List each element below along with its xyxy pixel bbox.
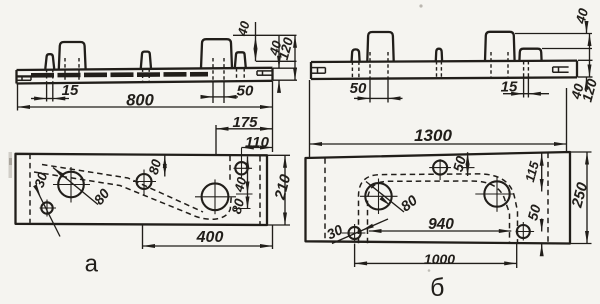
svg-text:250: 250	[568, 180, 591, 210]
svg-text:110: 110	[245, 134, 270, 151]
svg-text:а: а	[85, 251, 99, 278]
svg-text:30: 30	[32, 170, 51, 189]
svg-text:80: 80	[229, 197, 248, 216]
svg-text:210: 210	[271, 172, 294, 202]
svg-text:40: 40	[231, 175, 250, 195]
svg-text:80: 80	[146, 157, 165, 176]
svg-text:40: 40	[573, 6, 592, 26]
svg-text:120: 120	[579, 77, 600, 104]
svg-text:80: 80	[90, 185, 112, 207]
svg-text:50: 50	[237, 83, 254, 100]
svg-text:15: 15	[501, 79, 518, 96]
svg-text:80: 80	[398, 193, 421, 216]
svg-text:175: 175	[232, 114, 258, 131]
svg-text:50: 50	[350, 80, 367, 97]
svg-text:1300: 1300	[414, 126, 452, 145]
svg-text:1000: 1000	[424, 251, 455, 267]
svg-text:115: 115	[522, 159, 542, 184]
svg-text:800: 800	[126, 92, 154, 110]
svg-text:50: 50	[450, 154, 470, 173]
svg-text:400: 400	[196, 229, 224, 246]
svg-text:15: 15	[62, 82, 79, 99]
svg-text:б: б	[430, 274, 444, 299]
svg-text:940: 940	[428, 216, 454, 233]
